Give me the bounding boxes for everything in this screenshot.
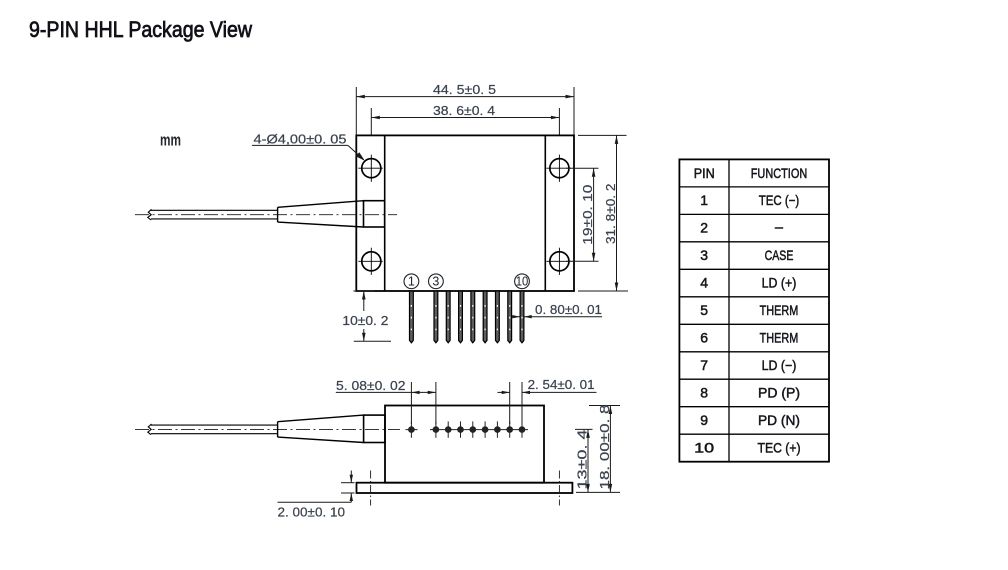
leader 4-Ø4,00±0.05 (mounting holes) (252, 145, 364, 159)
svg-text:13±0. 4: 13±0. 4 (575, 430, 590, 490)
fiber boot taper (side view) (278, 415, 364, 442)
hole centerline right (side view) (558, 471, 560, 506)
pin dot center marks (side view) (406, 421, 529, 437)
fiber boot taper (top view) (278, 201, 364, 227)
fiber break symbol (side view) (148, 424, 152, 435)
svg-text:THERM: THERM (760, 302, 799, 318)
package outline (top view) (356, 135, 574, 291)
dimension 13±0.4 (centerline height) (575, 429, 593, 492)
base flange (side view) (357, 483, 573, 493)
right flange inner line (544, 135, 546, 291)
svg-text:4-Ø4,00±0. 05: 4-Ø4,00±0. 05 (254, 131, 347, 146)
svg-text:LD (+): LD (+) (762, 275, 797, 291)
svg-text:9-PIN HHL Package View: 9-PIN HHL Package View (29, 17, 253, 42)
svg-text:CASE: CASE (765, 247, 794, 263)
svg-text:10: 10 (694, 440, 714, 456)
dimension 5.08±0.02 (pin 1 to pin 3 spacing) (336, 382, 436, 424)
svg-text:2: 2 (700, 220, 708, 236)
svg-text:FUNCTION: FUNCTION (751, 165, 808, 181)
svg-text:4: 4 (700, 275, 708, 291)
dimension 10±0.2 (pin length) (353, 291, 391, 341)
svg-text:PD (N): PD (N) (758, 412, 800, 428)
svg-text:mm: mm (160, 130, 181, 149)
mounting hole H2 (top-right) (546, 155, 571, 182)
left flange inner line (384, 135, 386, 291)
fiber centerline (side view) (135, 428, 400, 430)
svg-text:31. 8±0. 2: 31. 8±0. 2 (603, 184, 618, 245)
package body (side view) (385, 406, 544, 483)
svg-text:PIN: PIN (694, 165, 715, 181)
svg-text:19±0. 10: 19±0. 10 (580, 185, 595, 245)
svg-text:7: 7 (700, 357, 708, 373)
svg-text:8: 8 (700, 385, 708, 401)
svg-text:38. 6±0. 4: 38. 6±0. 4 (433, 103, 495, 118)
dimension 2.00±0.10 (flange thickness) (278, 471, 355, 503)
svg-text:3: 3 (432, 275, 439, 289)
fiber centerline (top view) (135, 214, 397, 216)
svg-text:9: 9 (700, 412, 708, 428)
fiber ferrule (top view) (364, 201, 385, 227)
svg-text:5: 5 (700, 302, 708, 318)
dimension 19±0.10 (hole vertical spacing) (566, 168, 599, 261)
svg-text:2. 00±0. 10: 2. 00±0. 10 (278, 505, 346, 520)
dimension 31.8±0.2 (overall height, top view) (578, 135, 628, 291)
fiber break symbol (top view) (148, 209, 152, 220)
svg-text:0. 80±0. 01: 0. 80±0. 01 (535, 302, 602, 317)
svg-text:TEC (−): TEC (−) (759, 192, 800, 208)
svg-text:PD (P): PD (P) (758, 385, 800, 401)
svg-text:3: 3 (700, 247, 708, 263)
svg-text:6: 6 (700, 330, 708, 346)
pin tips (side view, 9 dots) (408, 426, 525, 433)
svg-text:1: 1 (408, 275, 415, 289)
dimension 18.00±0.8 (overall height, side view) (576, 406, 620, 493)
svg-text:44. 5±0. 5: 44. 5±0. 5 (433, 82, 496, 97)
pin label 10 (circled) (515, 274, 530, 289)
svg-text:THERM: THERM (760, 330, 799, 346)
mounting hole H1 (top-left) (358, 155, 383, 182)
dimension 0.80±0.01 (pin diameter) (512, 316, 602, 318)
svg-text:10: 10 (516, 275, 529, 289)
hole centerline left (side view) (370, 471, 372, 506)
pin label 3 (circled) (429, 274, 444, 289)
mounting hole H4 (bottom-right) (546, 248, 571, 275)
svg-text:LD (−): LD (−) (762, 357, 797, 373)
table grid (679, 159, 829, 461)
svg-text:5. 08±0. 02: 5. 08±0. 02 (336, 378, 406, 393)
svg-text:2. 54±0. 01: 2. 54±0. 01 (528, 377, 595, 392)
svg-text:10±0. 2: 10±0. 2 (342, 313, 388, 328)
fiber cable (side view) (151, 425, 278, 434)
fiber cable (top view) (151, 210, 278, 219)
fiber ferrule (side view) (364, 415, 385, 442)
svg-text:TEC (+): TEC (+) (758, 440, 801, 456)
pins (top view, 9 leads) (410, 291, 524, 343)
mounting hole H3 (bottom-left) (358, 248, 383, 275)
dimension 2.54±0.01 (adjacent pin spacing) (498, 382, 597, 424)
pin label 1 (circled) (404, 274, 419, 289)
dimension 44.5±0.5 (overall width, top view) (356, 87, 574, 135)
svg-text:1: 1 (700, 192, 708, 208)
dimension 38.6±0.4 (hole spacing, top view) (371, 108, 559, 135)
svg-text:18. 00±0. 8: 18. 00±0. 8 (597, 405, 612, 490)
svg-text:−: − (774, 220, 784, 236)
